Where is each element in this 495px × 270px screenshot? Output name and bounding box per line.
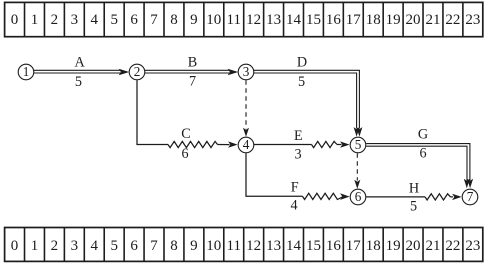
svg-text:F: F	[291, 179, 299, 195]
svg-text:7: 7	[150, 12, 158, 28]
svg-text:3: 3	[71, 12, 79, 28]
node 5 (event circle)	[350, 137, 366, 153]
svg-text:20: 20	[406, 12, 421, 28]
activity H arrow (6-7 with free-float zigzag)	[366, 194, 461, 200]
svg-text:3: 3	[243, 64, 250, 79]
svg-text:5: 5	[298, 74, 305, 90]
svg-text:15: 15	[306, 238, 321, 254]
svg-text:6: 6	[355, 189, 362, 204]
svg-text:13: 13	[266, 12, 281, 28]
activity G arrow (5-7, critical double line with corner)	[366, 144, 473, 189]
svg-text:23: 23	[465, 12, 480, 28]
svg-text:0: 0	[11, 238, 19, 254]
svg-text:7: 7	[189, 74, 196, 90]
activity D arrow (3-5, critical double line with corner)	[254, 70, 363, 136]
dummy arrow 3-4 (dashed)	[243, 80, 249, 137]
svg-text:6: 6	[130, 12, 138, 28]
svg-text:6: 6	[130, 238, 138, 254]
svg-text:D: D	[297, 54, 307, 70]
svg-text:B: B	[188, 54, 197, 70]
svg-text:4: 4	[290, 198, 297, 214]
svg-text:21: 21	[425, 12, 440, 28]
svg-text:22: 22	[445, 238, 460, 254]
svg-text:12: 12	[246, 12, 261, 28]
svg-text:4: 4	[91, 12, 99, 28]
node 7 (event circle)	[462, 189, 478, 205]
svg-text:22: 22	[445, 12, 460, 28]
svg-text:6: 6	[181, 146, 188, 162]
node 1 (event circle)	[18, 64, 34, 80]
svg-text:A: A	[74, 55, 85, 71]
svg-text:8: 8	[170, 12, 178, 28]
timescale ruler bottom (0-23)	[5, 228, 483, 262]
svg-text:17: 17	[346, 238, 362, 254]
svg-text:H: H	[409, 181, 419, 197]
svg-text:13: 13	[266, 238, 281, 254]
svg-text:19: 19	[386, 238, 401, 254]
svg-text:17: 17	[346, 12, 362, 28]
svg-text:E: E	[294, 128, 303, 144]
svg-text:2: 2	[51, 238, 59, 254]
svg-text:14: 14	[286, 12, 302, 28]
svg-text:11: 11	[227, 238, 241, 254]
svg-text:1: 1	[31, 238, 39, 254]
svg-text:10: 10	[206, 12, 221, 28]
node 4 (event circle)	[238, 137, 254, 153]
svg-text:12: 12	[246, 238, 261, 254]
svg-text:4: 4	[243, 137, 250, 152]
svg-text:6: 6	[419, 146, 426, 162]
node 2 (event circle)	[129, 64, 145, 80]
svg-text:5: 5	[410, 199, 417, 215]
activity F arrow (4-6 with free-float zigzag)	[246, 153, 350, 200]
dummy arrow 5-6 (dashed)	[354, 153, 360, 189]
svg-text:5: 5	[355, 137, 362, 152]
svg-text:19: 19	[386, 12, 401, 28]
svg-text:8: 8	[170, 238, 178, 254]
svg-text:G: G	[418, 127, 428, 143]
svg-text:16: 16	[326, 12, 342, 28]
activity A arrow (1-2, critical double line)	[34, 69, 129, 75]
svg-text:14: 14	[286, 238, 302, 254]
svg-text:16: 16	[326, 238, 342, 254]
svg-text:23: 23	[465, 238, 480, 254]
svg-text:20: 20	[406, 238, 421, 254]
svg-text:1: 1	[23, 64, 30, 79]
svg-text:11: 11	[227, 12, 241, 28]
node 6 (event circle)	[350, 189, 366, 205]
svg-text:15: 15	[306, 12, 321, 28]
svg-text:3: 3	[294, 147, 301, 163]
svg-text:7: 7	[467, 189, 474, 204]
node 3 (event circle)	[238, 64, 254, 80]
svg-text:18: 18	[366, 12, 381, 28]
svg-text:2: 2	[134, 64, 141, 79]
svg-text:1: 1	[31, 12, 39, 28]
svg-text:21: 21	[425, 238, 440, 254]
activity B arrow (2-3, critical double line)	[145, 69, 238, 75]
svg-text:9: 9	[190, 238, 198, 254]
svg-text:2: 2	[51, 12, 59, 28]
svg-text:7: 7	[150, 238, 158, 254]
svg-text:5: 5	[75, 74, 82, 90]
svg-text:C: C	[181, 126, 190, 142]
svg-text:9: 9	[190, 12, 198, 28]
activity C arrow (2-4 with free-float zigzag)	[137, 80, 238, 148]
timescale ruler top (0-23)	[5, 2, 483, 36]
svg-text:5: 5	[110, 12, 118, 28]
svg-text:5: 5	[110, 238, 118, 254]
svg-text:0: 0	[11, 12, 19, 28]
activity E arrow (4-5 with free-float zigzag)	[254, 141, 350, 147]
svg-text:18: 18	[366, 238, 381, 254]
svg-text:3: 3	[71, 238, 79, 254]
svg-text:10: 10	[206, 238, 221, 254]
svg-text:4: 4	[91, 238, 99, 254]
